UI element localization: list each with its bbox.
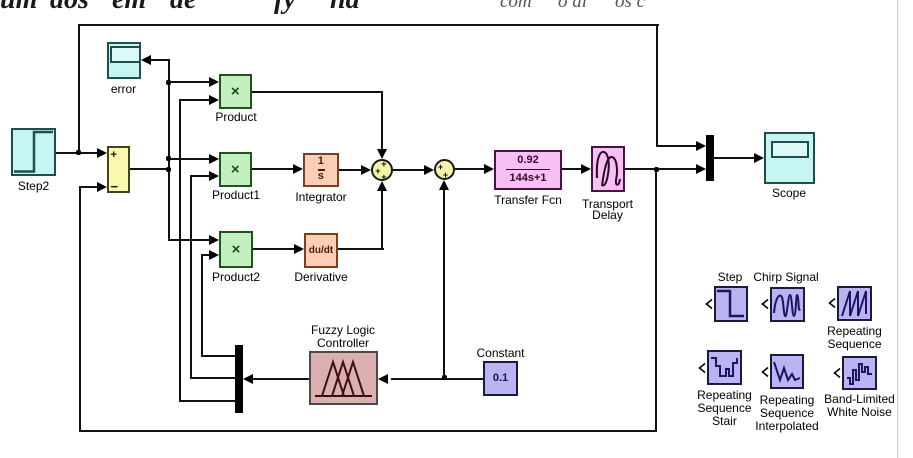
label Chirp Signal (753, 271, 818, 284)
palette block Repeating Sequence Stair (707, 350, 742, 385)
wire error net to Product2 input 1 (168, 239, 210, 241)
block Transfer Fcn (494, 150, 562, 190)
wire feedback down from plant output junction (655, 168, 657, 431)
wire demux out2 to Product1 input 2 (190, 175, 209, 177)
wire error net to Product1 input 1 (168, 158, 210, 160)
wire Transfer Fcn to Transport Delay (562, 168, 581, 170)
block Step2 (11, 128, 56, 176)
wire Constant to Fuzzy Logic Controller (391, 378, 484, 380)
wire error net to Product input 1 (168, 81, 210, 83)
label Step2 (18, 180, 49, 193)
node junction on Step2 wire (reference branch) (76, 150, 81, 155)
wire demux out3 to Product input 2 (179, 99, 209, 101)
label Product2 (212, 271, 260, 284)
wire Transport Delay to Mux input 2 (625, 168, 697, 170)
label Product1 (212, 189, 260, 202)
wire feedback up left side (79, 186, 81, 431)
wire demux out3 vertical (179, 99, 181, 401)
block Scope (764, 132, 815, 184)
node junction error net at Sum output (166, 167, 171, 172)
node junction error net at Product1 branch (166, 156, 171, 161)
wire Product1 output to Integrator (252, 168, 294, 170)
wire Product2 output to Derivative (253, 248, 295, 250)
block Sum rectangle (107, 146, 131, 193)
label Product (215, 111, 256, 124)
node junction error net at Product branch (166, 80, 171, 85)
label Repeating Sequence Stair (697, 389, 752, 428)
wire error net to error scope (151, 59, 170, 61)
label Band-Limited White Noise (824, 393, 895, 419)
wire reference along top (78, 24, 659, 26)
wire reference into Mux input 1 (656, 145, 697, 147)
wire Derivative output horizontal (338, 248, 384, 250)
wire demux out1 to Product2 input 2 (201, 254, 210, 256)
block error scope (107, 42, 141, 79)
op Sum1 circle (371, 159, 393, 181)
wire Sum1 to Sum2 (393, 169, 424, 171)
block Mux bar (706, 135, 714, 181)
palette block Repeating Sequence (837, 286, 872, 321)
block Fuzzy Logic Controller (309, 351, 378, 406)
faint window edge line at far right (897, 0, 898, 458)
wire feedback into Sum minus input (79, 186, 98, 188)
wire demux out1 vertical (201, 254, 203, 356)
node junction on Constant wire (442, 375, 447, 380)
block Product2 (219, 231, 253, 269)
block Integrator (303, 153, 339, 187)
label Fuzzy Logic Controller (311, 324, 375, 352)
wire Sum2 to Transfer Fcn (455, 168, 485, 170)
wire Derivative output up to Sum1 bottom (381, 190, 383, 250)
wire up to Sum2 bottom input (443, 190, 445, 378)
wire reference down right side (656, 24, 658, 147)
wire Step2 to Sum plus input (56, 152, 97, 154)
label Derivative (294, 271, 347, 284)
block Constant (483, 361, 518, 396)
block Product1 (219, 152, 253, 187)
label Repeating Sequence Interpolated (755, 394, 818, 433)
wire Mux output to Scope (714, 157, 755, 159)
label Scope (772, 187, 806, 200)
wire error net vertical (168, 59, 170, 240)
block Derivative (304, 233, 338, 268)
wire Product output down to Sum1 top (381, 91, 383, 150)
top cropped caption text (0, 0, 913, 15)
wire reference branch up left side (78, 24, 80, 153)
label Transport Delay (582, 199, 633, 221)
label error (111, 83, 136, 96)
wire demux out3 horizontal (179, 400, 235, 402)
node junction plant output feedback (654, 167, 659, 172)
wire demux out1 horizontal (201, 355, 235, 357)
block Demux bar (235, 345, 243, 413)
label Transfer Fcn (494, 194, 562, 207)
label Repeating Sequence (827, 325, 882, 351)
palette block Chirp Signal (770, 287, 805, 322)
palette block Band-Limited White Noise (842, 356, 877, 391)
op Sum2 circle (434, 159, 455, 180)
block Product (219, 74, 253, 109)
wire demux out2 vertical (190, 175, 192, 378)
wire Fuzzy Logic Controller output to demux (253, 378, 309, 380)
wire Product output horizontal (252, 91, 383, 93)
palette block Step (714, 286, 748, 322)
wire Integrator output to Sum1 (339, 169, 363, 171)
palette block Repeating Sequence Interpolated (770, 354, 804, 389)
label Integrator (295, 191, 346, 204)
label Step palette (718, 271, 743, 284)
block Transport Delay (591, 146, 625, 193)
wire demux out2 horizontal (190, 377, 235, 379)
wire feedback along bottom (79, 430, 658, 432)
wire Sum output to error net (130, 168, 170, 170)
label Constant (476, 347, 524, 360)
